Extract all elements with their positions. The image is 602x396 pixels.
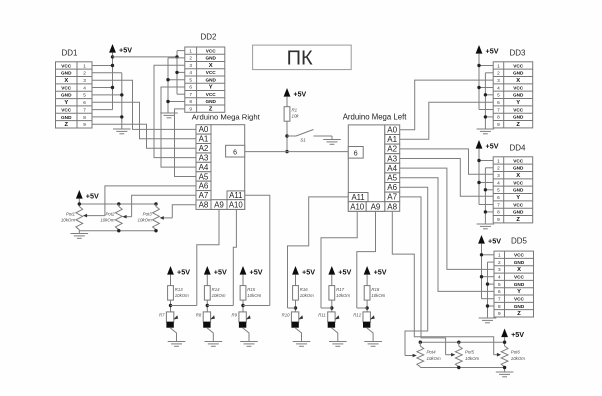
svg-text:10kOm: 10kOm: [336, 293, 350, 298]
wire: [170, 300, 172, 312]
svg-text:+5V: +5V: [294, 91, 307, 98]
svg-text:GND: GND: [205, 99, 216, 104]
svg-text:VCC: VCC: [513, 180, 524, 185]
power +5V (R13): [167, 266, 190, 278]
node: [294, 306, 297, 309]
svg-text:5: 5: [498, 282, 501, 287]
resistor R16: [293, 286, 314, 301]
node: [484, 210, 487, 213]
svg-text:Z: Z: [64, 122, 68, 128]
svg-text:10kOm: 10kOm: [138, 218, 152, 223]
wire: [243, 328, 249, 342]
wire: [478, 57, 480, 110]
wire: [366, 300, 368, 312]
svg-text:X: X: [517, 267, 521, 273]
svg-text:9: 9: [83, 122, 86, 127]
wire DD1.Z to A2: [92, 124, 196, 148]
resistor R17: [329, 286, 350, 301]
wire: [482, 276, 495, 278]
node: [419, 341, 422, 344]
svg-text:A4: A4: [387, 164, 397, 173]
node: [484, 188, 487, 191]
svg-text:1: 1: [189, 48, 192, 53]
svg-text:R1: R1: [292, 108, 298, 113]
node: [503, 366, 506, 369]
ground: [205, 342, 223, 347]
svg-text:Y: Y: [64, 100, 68, 106]
svg-text:+5V: +5V: [302, 267, 315, 276]
svg-text:R7: R7: [159, 313, 165, 318]
svg-text:10kOm: 10kOm: [511, 356, 525, 361]
svg-text:5: 5: [497, 188, 500, 193]
node: [330, 306, 333, 309]
svg-text:2: 2: [497, 166, 500, 171]
svg-text:9: 9: [497, 122, 500, 127]
node: [484, 93, 487, 96]
svg-text:3: 3: [497, 173, 500, 178]
svg-text:3: 3: [83, 78, 86, 83]
svg-text:GND: GND: [61, 115, 72, 120]
svg-text:A5: A5: [199, 172, 209, 181]
wire: [446, 353, 456, 357]
wire: [92, 94, 122, 96]
wire: [170, 328, 176, 342]
node: [166, 100, 169, 103]
svg-text:Pot6: Pot6: [511, 350, 521, 355]
wire A9L to R12 node: [357, 211, 376, 308]
node: [457, 366, 460, 369]
node: [484, 115, 487, 118]
wire A10L to R11 node: [321, 211, 357, 308]
wire: [478, 152, 480, 205]
potentiometer Pot2: [100, 207, 122, 230]
svg-text:2: 2: [498, 260, 501, 265]
svg-text:8: 8: [497, 210, 500, 215]
wire: [479, 182, 493, 184]
ground: [160, 113, 178, 118]
svg-text:Y: Y: [517, 289, 521, 295]
svg-text:GND: GND: [514, 304, 525, 309]
svg-text:GND: GND: [514, 282, 525, 287]
potentiometer Pot6: [501, 346, 525, 367]
svg-text:+5V: +5V: [488, 236, 501, 245]
svg-text:R13: R13: [175, 287, 183, 292]
wire: [92, 65, 113, 67]
svg-text:9: 9: [498, 311, 501, 316]
svg-text:7: 7: [497, 202, 500, 207]
switch S1: [287, 130, 332, 143]
svg-text:Y: Y: [516, 100, 520, 106]
svg-text:6: 6: [233, 149, 237, 156]
svg-text:GND: GND: [513, 93, 524, 98]
node: [477, 181, 480, 184]
svg-text:Z: Z: [516, 122, 520, 128]
connector DD5: [494, 237, 534, 318]
svg-text:VCC: VCC: [513, 202, 524, 207]
svg-text:1: 1: [83, 63, 86, 68]
wire: [482, 254, 495, 256]
ground: [168, 342, 186, 347]
svg-text:GND: GND: [513, 71, 524, 76]
svg-text:3: 3: [497, 78, 500, 83]
svg-text:9: 9: [189, 106, 192, 111]
svg-text:X: X: [209, 63, 213, 69]
svg-text:4: 4: [497, 85, 500, 90]
svg-text:+5V: +5V: [86, 191, 99, 200]
power +5V (R16): [292, 266, 315, 278]
connector DD4: [493, 144, 533, 224]
power +5V (DD5): [478, 235, 501, 247]
svg-text:VCC: VCC: [513, 107, 524, 112]
wire: [367, 328, 373, 342]
svg-text:R17: R17: [336, 287, 344, 292]
svg-text:+5V: +5V: [374, 267, 387, 276]
wire: [168, 79, 185, 81]
svg-text:Pot5: Pot5: [465, 350, 475, 355]
wire: [485, 189, 493, 191]
wire DD1.Y to A1: [92, 102, 196, 139]
svg-text:5: 5: [189, 77, 192, 82]
svg-text:A1: A1: [199, 135, 209, 144]
svg-text:R10: R10: [282, 313, 290, 318]
svg-text:Pot4: Pot4: [427, 350, 437, 355]
wire A6L to Pot4 wiper: [400, 187, 428, 355]
svg-text:GND: GND: [513, 188, 524, 193]
svg-text:VCC: VCC: [61, 63, 72, 68]
wire: [177, 50, 185, 52]
svg-text:GND: GND: [61, 71, 72, 76]
button R12: [353, 312, 374, 328]
node: [285, 134, 288, 137]
node: [111, 64, 114, 67]
wire: [366, 278, 368, 286]
svg-text:+5V: +5V: [338, 267, 351, 276]
node: [175, 55, 178, 58]
wire: [92, 72, 122, 74]
svg-text:8: 8: [497, 115, 500, 120]
svg-text:R18: R18: [371, 287, 379, 292]
svg-text:3: 3: [189, 63, 192, 68]
wire DD2.Z to A5: [175, 109, 197, 177]
wire: [484, 73, 486, 129]
resistor R14: [204, 286, 225, 301]
ground: [364, 342, 382, 347]
svg-text:X: X: [516, 78, 520, 84]
wire: [168, 101, 185, 103]
svg-text:3: 3: [498, 267, 501, 272]
button R8: [196, 312, 215, 328]
svg-text:2: 2: [189, 56, 192, 61]
svg-text:10kOm: 10kOm: [247, 293, 261, 298]
wire: [112, 56, 114, 110]
wire: [119, 204, 156, 207]
svg-text:GND: GND: [514, 260, 525, 265]
svg-text:6: 6: [189, 85, 192, 90]
svg-text:GND: GND: [61, 93, 72, 98]
svg-text:8: 8: [83, 115, 86, 120]
svg-text:R8: R8: [196, 313, 202, 318]
wire: [171, 305, 197, 307]
svg-text:A11: A11: [229, 191, 242, 200]
wire: [79, 203, 156, 205]
svg-text:A6: A6: [387, 183, 397, 192]
svg-text:+5V: +5V: [486, 46, 499, 55]
wire: [295, 328, 301, 342]
ground: [323, 140, 341, 145]
wire: [177, 93, 185, 95]
wire: [488, 305, 495, 307]
wire 6-6 link: [245, 151, 349, 153]
wire: [92, 87, 113, 89]
node: [117, 229, 120, 232]
ground: [496, 372, 514, 377]
svg-text:10kOm: 10kOm: [175, 293, 189, 298]
svg-text:4: 4: [497, 180, 500, 185]
svg-text:R16: R16: [300, 287, 308, 292]
svg-text:6: 6: [497, 195, 500, 200]
power +5V (pots 4-6): [501, 329, 524, 341]
power +5V (DD4): [476, 140, 499, 152]
resistor R13: [168, 286, 189, 301]
svg-text:Pot2: Pot2: [105, 212, 115, 217]
wire: [479, 109, 493, 111]
svg-text:6: 6: [497, 100, 500, 105]
svg-text:GND: GND: [513, 166, 524, 171]
wire: [79, 230, 156, 234]
svg-text:A10: A10: [350, 202, 365, 211]
wire: [206, 278, 208, 286]
svg-text:VCC: VCC: [206, 92, 217, 97]
wire: [331, 328, 337, 342]
power +5V (pots 1-3): [76, 190, 99, 202]
svg-text:A2: A2: [199, 144, 209, 153]
button R10: [282, 312, 303, 328]
svg-text:2: 2: [83, 71, 86, 76]
node: [477, 86, 480, 89]
svg-text:A9: A9: [371, 202, 381, 211]
svg-text:A1: A1: [387, 135, 397, 144]
svg-text:DD3: DD3: [509, 49, 526, 58]
wire: [121, 73, 123, 129]
wire: [485, 94, 493, 96]
wire A11 to R9 node: [245, 195, 270, 305]
svg-text:1: 1: [497, 158, 500, 163]
svg-text:7: 7: [497, 107, 500, 112]
node: [169, 304, 172, 307]
svg-text:1: 1: [498, 253, 501, 258]
svg-text:R9: R9: [232, 313, 238, 318]
connector DD1: [56, 49, 93, 129]
wire: [485, 72, 493, 74]
svg-text:4: 4: [189, 70, 192, 75]
ground: [329, 342, 347, 347]
wire: [484, 168, 486, 224]
svg-text:A6: A6: [199, 182, 209, 191]
power +5V (S1 pull-up): [284, 88, 307, 100]
wire A9 to R7 node: [197, 209, 219, 305]
power +5V (R14): [204, 266, 227, 278]
wire A5L to DD5.Y: [400, 178, 494, 292]
wire: [206, 300, 208, 312]
power +5V (DD3): [476, 45, 499, 57]
svg-text:8: 8: [189, 99, 192, 104]
wire: [481, 247, 483, 299]
wire: [488, 283, 495, 285]
svg-text:A2: A2: [387, 145, 397, 154]
svg-text:+5V: +5V: [119, 45, 132, 54]
wire: [405, 354, 417, 358]
svg-text:7: 7: [189, 92, 192, 97]
svg-text:A7: A7: [199, 191, 209, 200]
svg-text:GND: GND: [513, 115, 524, 120]
wire: [295, 278, 297, 286]
svg-text:DD1: DD1: [61, 49, 78, 58]
ground: [477, 129, 495, 134]
svg-text:5: 5: [83, 93, 86, 98]
node: [154, 229, 157, 232]
svg-text:X: X: [516, 173, 520, 179]
connector DD3: [493, 49, 533, 129]
node: [154, 202, 157, 205]
wire A8 to Pot3 wiper: [160, 205, 196, 220]
wire DD1.X to A0: [92, 80, 196, 129]
wire: [479, 204, 493, 206]
svg-text:GND: GND: [205, 77, 216, 82]
wire: [485, 116, 493, 118]
svg-text:5: 5: [497, 93, 500, 98]
wire: [113, 56, 178, 58]
node: [111, 86, 114, 89]
svg-text:A3: A3: [387, 154, 397, 163]
node: [365, 306, 368, 309]
svg-text:ПК: ПК: [287, 48, 313, 70]
node: [457, 341, 460, 344]
svg-text:9: 9: [497, 217, 500, 222]
IC U2 Arduino Mega Left: [343, 113, 408, 212]
svg-text:VCC: VCC: [514, 275, 525, 280]
node: [206, 304, 209, 307]
svg-text:+5V: +5V: [486, 141, 499, 150]
node +5V rail junction: [111, 55, 114, 58]
svg-text:X: X: [64, 78, 68, 84]
button R11: [318, 312, 339, 328]
node: [480, 275, 483, 278]
node: [120, 115, 123, 118]
svg-text:10kOm: 10kOm: [61, 218, 75, 223]
wire A8L to Pot6 wiper: [392, 211, 493, 354]
node: [78, 202, 81, 205]
wire: [331, 278, 333, 286]
svg-text:Z: Z: [517, 311, 521, 317]
wire: [168, 57, 185, 59]
svg-text:R15: R15: [247, 287, 255, 292]
button R9: [232, 312, 251, 328]
wire A1L to DD3.Y: [400, 102, 494, 139]
svg-text:DD2: DD2: [200, 33, 217, 42]
wire DD2.X to A3: [154, 65, 196, 157]
svg-text:10kOm: 10kOm: [100, 218, 114, 223]
svg-text:DD5: DD5: [511, 237, 528, 246]
wire A2L to DD4.X: [400, 149, 494, 174]
svg-text:2: 2: [497, 71, 500, 76]
potentiometer Pot1: [61, 207, 83, 230]
wire A6 to Pot1 wiper: [83, 186, 196, 218]
wire: [420, 342, 459, 346]
resistor R15: [240, 286, 261, 301]
svg-text:GND: GND: [513, 210, 524, 215]
wire: [176, 51, 178, 95]
svg-text:4: 4: [498, 275, 501, 280]
wire A7L to Pot5 wiper: [400, 197, 446, 355]
wire A11L to R10 node: [288, 197, 349, 308]
resistor R18: [364, 286, 385, 301]
svg-text:VCC: VCC: [513, 63, 524, 68]
svg-text:Y: Y: [516, 195, 520, 201]
wire: [242, 300, 244, 312]
svg-text:10kOm: 10kOm: [371, 293, 385, 298]
svg-text:VCC: VCC: [513, 85, 524, 90]
node: [486, 282, 489, 285]
wire: [286, 100, 288, 107]
svg-text:S1: S1: [300, 138, 306, 143]
wire: [167, 58, 169, 113]
ground: [477, 224, 495, 229]
svg-text:A0: A0: [199, 125, 209, 134]
svg-text:R14: R14: [212, 287, 220, 292]
svg-text:10k: 10k: [292, 114, 300, 119]
svg-text:A10: A10: [229, 200, 244, 209]
wire: [485, 167, 493, 169]
node: [166, 78, 169, 81]
svg-text:Arduino Mega Right: Arduino Mega Right: [192, 113, 261, 122]
ground: [71, 234, 89, 239]
wire: [92, 116, 122, 118]
svg-text:A9: A9: [214, 200, 224, 209]
node: [486, 304, 489, 307]
wire: [207, 305, 233, 307]
wire: [243, 305, 270, 307]
node: [477, 159, 480, 162]
wire: [288, 307, 296, 309]
power +5V (DD1/DD2 supply): [109, 44, 132, 56]
svg-text:VCC: VCC: [61, 107, 72, 112]
svg-text:A11: A11: [351, 193, 364, 202]
button R7: [159, 312, 178, 328]
wire: [207, 328, 213, 342]
svg-text:4: 4: [83, 85, 86, 90]
wire: [479, 87, 493, 89]
svg-text:R12: R12: [353, 313, 361, 318]
potentiometer Pot3: [138, 207, 160, 230]
node: [241, 304, 244, 307]
svg-text:1: 1: [497, 63, 500, 68]
ground: [479, 318, 497, 323]
svg-text:+5V: +5V: [511, 330, 524, 339]
svg-text:A5: A5: [387, 174, 397, 183]
svg-text:A8: A8: [199, 200, 209, 209]
node: [285, 150, 288, 153]
wire A3L to DD4.Y: [400, 159, 494, 197]
wire: [494, 353, 501, 357]
svg-text:DD4: DD4: [509, 144, 526, 153]
wire: [504, 340, 506, 346]
wire: [420, 367, 504, 372]
node: [477, 64, 480, 67]
wire A0L to DD3.X: [400, 80, 494, 130]
power +5V (R17): [328, 266, 351, 278]
node: [120, 93, 123, 96]
svg-text:6: 6: [354, 150, 358, 157]
